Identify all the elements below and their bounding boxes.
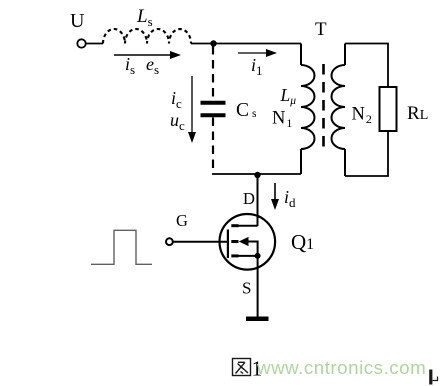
svg-text:N2: N2 [352, 105, 372, 127]
svg-text:es: es [146, 54, 159, 77]
current arrow is es [114, 51, 181, 77]
gate pulse waveform [91, 230, 152, 264]
wire (dashed) node A to capacitor [212, 46, 214, 101]
wire drain [257, 175, 259, 227]
svg-text:www.cntronics.com: www.cntronics.com [256, 357, 426, 378]
resistor RL [380, 87, 397, 131]
transformer secondary winding N2 [332, 44, 346, 177]
node A (junction dot) [210, 40, 216, 46]
svg-text:Cs: Cs [236, 100, 257, 121]
wire gate [173, 241, 227, 243]
transistor Q1 body internal wire [248, 242, 258, 256]
wire secondary loop [345, 44, 388, 88]
transformer core [322, 64, 325, 151]
wire source [257, 258, 259, 318]
caption 图1 (tu glyph drawn as strokes) [233, 359, 251, 376]
transistor Q1 channel segment (drain) [231, 224, 238, 227]
svg-text:i1: i1 [251, 55, 263, 78]
svg-text:U: U [70, 10, 85, 32]
cursor mark [431, 370, 438, 385]
transistor Q1 channel segment (source) [231, 254, 238, 257]
wire U terminal to inductor [86, 43, 103, 45]
svg-text:Q1: Q1 [291, 230, 314, 254]
ground [246, 317, 269, 322]
svg-text:is: is [125, 54, 135, 77]
svg-text:N1: N1 [272, 109, 292, 131]
svg-text:S: S [242, 279, 251, 298]
transistor Q1 body circle [220, 214, 276, 270]
capacitor Cs [201, 103, 226, 116]
current arrow id [271, 183, 296, 210]
transistor Q1 drain internal wire [239, 225, 258, 227]
wire inductor to node A [191, 43, 214, 45]
svg-text:Lμ: Lμ [280, 85, 297, 107]
svg-text:id: id [284, 187, 296, 210]
transistor Q1 gate bar [227, 230, 229, 259]
wire (dashed) capacitor to bottom wire [212, 118, 214, 174]
transistor Q1 source internal wire [239, 255, 258, 257]
gate terminal G [166, 238, 173, 245]
svg-text:Ls: Ls [136, 6, 153, 29]
inductor Ls [103, 29, 191, 44]
terminal U [77, 39, 85, 47]
transistor Q1 channel segment (body) [231, 240, 238, 243]
arrow ic uc [170, 76, 196, 143]
node D junction dot [254, 172, 260, 178]
svg-text:ic: ic [171, 88, 182, 111]
wire node A to transformer top [214, 43, 302, 45]
wire bottom of primary loop [212, 173, 301, 175]
svg-text:G: G [176, 211, 188, 230]
transistor Q1 body arrow [239, 237, 249, 246]
junction dot source-body [255, 253, 261, 259]
svg-text:D: D [243, 189, 255, 208]
svg-text:T: T [315, 19, 327, 40]
current arrow i1 [238, 49, 277, 78]
svg-text:RL: RL [407, 103, 428, 124]
wire resistor to secondary bottom [345, 131, 388, 176]
svg-text:uc: uc [170, 110, 185, 133]
transformer primary winding N1 (Lmu) [301, 44, 315, 175]
